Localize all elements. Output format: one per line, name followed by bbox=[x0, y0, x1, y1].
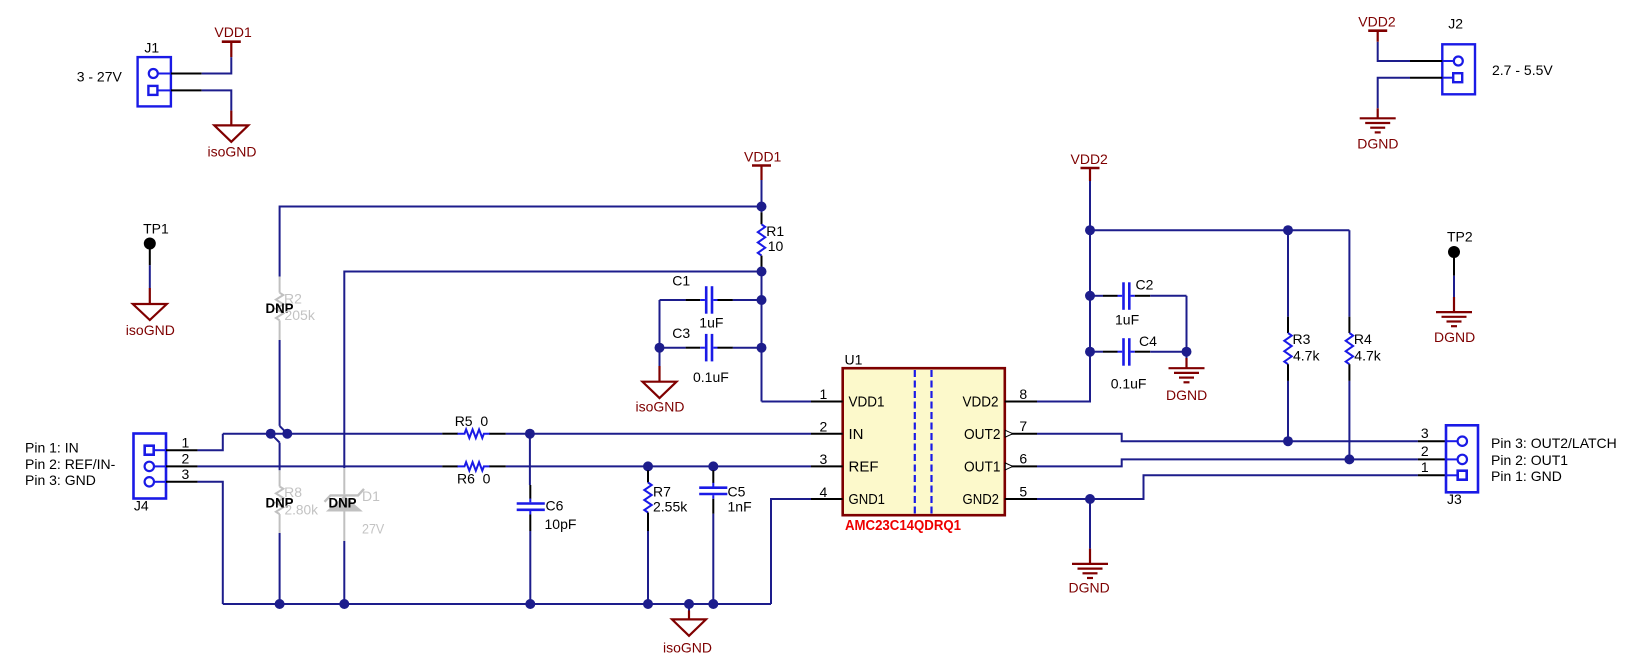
svg-text:Pin 1: IN: Pin 1: IN bbox=[25, 440, 79, 456]
wire GND bus to isoGND bbox=[688, 604, 690, 611]
svg-text:isoGND: isoGND bbox=[663, 639, 712, 655]
junction VDD2 node bbox=[1085, 225, 1095, 235]
svg-text:OUT2: OUT2 bbox=[964, 426, 1001, 443]
ground DGND (at C4) bbox=[1169, 358, 1205, 382]
power VDD2 (above C2) bbox=[1081, 168, 1100, 181]
junction REF/C5 bbox=[708, 461, 718, 471]
wire REF bus (y=466.4) bbox=[198, 465, 811, 467]
svg-text:U1: U1 bbox=[845, 352, 863, 368]
wire C5 top bbox=[712, 466, 714, 470]
op-amp U1 body bbox=[843, 368, 1005, 515]
svg-text:C3: C3 bbox=[672, 325, 690, 341]
capacitor C3 bbox=[660, 334, 762, 362]
wire VDD2 top rail (y=231) bbox=[1090, 229, 1349, 231]
wire GND2 to DGND bbox=[1089, 499, 1091, 549]
svg-text:R5 0: R5 0 bbox=[455, 413, 489, 429]
J3 pin2 lead bbox=[1418, 458, 1446, 460]
ground DGND (below U1) bbox=[1072, 549, 1108, 578]
wire R4 vertical top bbox=[1348, 230, 1350, 317]
J3 pin1 lead bbox=[1418, 474, 1446, 476]
svg-text:Pin 1: GND: Pin 1: GND bbox=[1491, 468, 1562, 484]
wire R8 branch vertical bbox=[279, 443, 281, 471]
svg-text:DGND: DGND bbox=[1357, 135, 1398, 151]
wire C1 left down to C3 bbox=[659, 300, 661, 348]
junction C3 left bbox=[655, 343, 665, 353]
wire J2 pin1 to VDD2 bbox=[1378, 42, 1410, 61]
svg-text:6: 6 bbox=[1019, 451, 1027, 467]
power VDD1 (at J1) bbox=[222, 42, 241, 57]
svg-text:VDD2: VDD2 bbox=[963, 394, 999, 411]
U1 pin 1 stub bbox=[811, 401, 843, 403]
capacitor C4 bbox=[1090, 338, 1187, 366]
resistor R7 bbox=[644, 470, 651, 531]
svg-text:REF: REF bbox=[849, 459, 879, 476]
J2 pin2 lead bbox=[1410, 77, 1442, 79]
capacitor C5 bbox=[699, 470, 727, 514]
svg-text:C4: C4 bbox=[1139, 333, 1157, 349]
U1 pin 5 stub bbox=[1005, 498, 1037, 500]
diode D1 (DNP zener) bbox=[325, 468, 365, 541]
junction C4 right bbox=[1182, 347, 1192, 357]
svg-text:GND2: GND2 bbox=[963, 491, 1000, 508]
svg-text:1nF: 1nF bbox=[728, 498, 752, 514]
test point TP1 bbox=[143, 221, 169, 250]
resistor R2 (DNP) bbox=[276, 277, 283, 340]
J3 pin name labels bbox=[1491, 435, 1617, 484]
junction C3 right bbox=[757, 343, 767, 353]
wire R3 vertical top bbox=[1287, 230, 1289, 317]
junction dots at IN bus crossover bbox=[266, 429, 293, 439]
junction REF/R7 bbox=[643, 461, 653, 471]
svg-text:0.1uF: 0.1uF bbox=[693, 369, 729, 385]
svg-text:C2: C2 bbox=[1136, 277, 1154, 293]
U1 pin 7 stub bbox=[1005, 433, 1037, 435]
svg-text:R1: R1 bbox=[766, 223, 784, 239]
svg-text:3: 3 bbox=[1421, 425, 1429, 441]
wire VDD2 stub down bbox=[1089, 181, 1091, 230]
svg-text:DGND: DGND bbox=[1434, 329, 1475, 345]
power VDD2 (at J2) bbox=[1368, 31, 1387, 42]
svg-text:R8: R8 bbox=[284, 484, 302, 500]
svg-text:2.80k: 2.80k bbox=[285, 502, 319, 518]
wire C5 bottom to GND bus bbox=[712, 514, 714, 604]
U1 pin 4 stub bbox=[811, 498, 843, 500]
J3 pin3 lead bbox=[1418, 440, 1446, 442]
junction C4 left bbox=[1085, 347, 1095, 357]
svg-text:10pF: 10pF bbox=[545, 516, 577, 532]
ground DGND (at J2) bbox=[1360, 108, 1396, 132]
U1 pin 2 stub bbox=[811, 433, 843, 435]
junction IN/C6 bbox=[525, 429, 535, 439]
svg-text:1: 1 bbox=[182, 434, 190, 450]
wire R7 top bbox=[647, 466, 649, 470]
wire J1 pin1 to VDD1 bbox=[202, 57, 232, 73]
J4 pin name labels bbox=[25, 440, 116, 488]
svg-text:3: 3 bbox=[820, 451, 828, 467]
wire to U1 pin1 bbox=[762, 401, 812, 403]
svg-text:J2: J2 bbox=[1448, 15, 1463, 31]
svg-text:Pin 2: OUT1: Pin 2: OUT1 bbox=[1491, 452, 1568, 468]
wire J4 pin3 down to GND bus bbox=[198, 482, 223, 604]
svg-text:DGND: DGND bbox=[1166, 387, 1207, 403]
wire J4 pin1 to IN bus bbox=[198, 434, 223, 451]
test point TP2 bbox=[1447, 229, 1473, 259]
svg-text:C6: C6 bbox=[546, 498, 564, 514]
wire OUT2 net bbox=[1037, 434, 1418, 442]
U1 pin 6 output marker bbox=[1005, 463, 1013, 470]
svg-text:1uF: 1uF bbox=[1115, 312, 1139, 328]
J4 pin3 lead bbox=[166, 481, 198, 483]
J4 pin1 lead bbox=[166, 449, 198, 451]
J1 pin2 lead bbox=[171, 89, 202, 91]
svg-text:GND1: GND1 bbox=[849, 491, 886, 508]
wire R7 bottom to GND bus bbox=[647, 531, 649, 604]
svg-text:4.7k: 4.7k bbox=[1293, 348, 1320, 364]
junction C5/GND bus bbox=[708, 599, 718, 609]
svg-text:R7: R7 bbox=[653, 484, 671, 500]
junction R3/OUT2 bbox=[1283, 436, 1293, 446]
svg-text:Pin 3: GND: Pin 3: GND bbox=[25, 472, 96, 488]
svg-text:Pin 3: OUT2/LATCH: Pin 3: OUT2/LATCH bbox=[1491, 435, 1617, 451]
svg-text:7: 7 bbox=[1019, 418, 1027, 434]
svg-text:5: 5 bbox=[1019, 483, 1027, 499]
svg-text:8: 8 bbox=[1019, 386, 1027, 402]
TP2 lead bbox=[1453, 258, 1455, 276]
wire VDD1 branch vertical (x=279.6 upper) bbox=[280, 426, 288, 434]
svg-text:TP2: TP2 bbox=[1447, 229, 1473, 245]
wire VDD2 vertical to U1 pin8 bbox=[1037, 230, 1090, 401]
wire R1 bottom node bbox=[761, 267, 763, 401]
svg-text:J3: J3 bbox=[1447, 491, 1462, 507]
svg-text:R6 0: R6 0 bbox=[457, 471, 491, 487]
svg-text:VDD1: VDD1 bbox=[214, 24, 252, 40]
ground isoGND (at TP1) bbox=[133, 288, 167, 320]
svg-text:2.55k: 2.55k bbox=[653, 498, 688, 514]
svg-text:R3: R3 bbox=[1293, 331, 1311, 347]
svg-text:VDD1: VDD1 bbox=[744, 149, 782, 165]
resistor R3 bbox=[1284, 317, 1291, 381]
ground isoGND (at GND bus) bbox=[672, 611, 706, 636]
wire R4 bottom to OUT1 net bbox=[1348, 381, 1350, 460]
svg-text:C1: C1 bbox=[672, 273, 690, 289]
svg-text:3: 3 bbox=[182, 466, 190, 482]
svg-text:OUT1: OUT1 bbox=[964, 459, 1001, 476]
svg-text:C5: C5 bbox=[728, 484, 746, 500]
wire C3 left to isoGND bbox=[659, 348, 661, 366]
U1 pin 7 output marker bbox=[1005, 430, 1013, 437]
U1 pin 8 stub bbox=[1005, 401, 1037, 403]
svg-text:DNP: DNP bbox=[329, 495, 357, 511]
wire R2 bottom to IN junction bbox=[279, 340, 281, 426]
wire GND bus (y=602) bbox=[223, 603, 771, 605]
resistor R1 bbox=[758, 212, 765, 267]
svg-text:isoGND: isoGND bbox=[636, 398, 685, 414]
wire OUT1 net bbox=[1037, 459, 1418, 466]
J1 pin1 lead bbox=[171, 73, 202, 75]
wire IN bus (y=434) bbox=[223, 433, 811, 435]
junction R8/GND bus bbox=[275, 599, 285, 609]
junction GND2/DGND bbox=[1085, 494, 1095, 504]
resistor R8 (DNP) bbox=[276, 470, 283, 533]
U1 pin 6 stub bbox=[1005, 465, 1037, 467]
junction R3 top bbox=[1283, 225, 1293, 235]
wire GND bus up to U1 pin4 bbox=[771, 499, 811, 604]
wire C6 bottom to GND bus bbox=[529, 531, 531, 604]
wire C6 top bbox=[529, 434, 531, 485]
svg-text:4: 4 bbox=[820, 484, 828, 500]
svg-text:0.1uF: 0.1uF bbox=[1111, 376, 1147, 392]
junction R4/OUT1 bbox=[1344, 454, 1354, 464]
connector J1 bbox=[138, 57, 171, 106]
svg-text:205k: 205k bbox=[284, 307, 316, 323]
svg-text:10: 10 bbox=[768, 238, 784, 254]
svg-text:D1: D1 bbox=[362, 488, 380, 504]
svg-text:2.7 - 5.5V: 2.7 - 5.5V bbox=[1492, 62, 1553, 78]
wire TP2 to DGND bbox=[1453, 276, 1455, 297]
svg-text:R4: R4 bbox=[1354, 331, 1372, 347]
wire J1 pin2 to isoGND bbox=[202, 90, 232, 110]
junction isoGND/GND bus bbox=[684, 599, 694, 609]
ground DGND (at TP2) bbox=[1436, 297, 1472, 326]
junction R1/D1 line bbox=[757, 267, 767, 277]
capacitor C6 bbox=[517, 485, 545, 531]
svg-text:IN: IN bbox=[849, 426, 864, 443]
svg-text:Pin 2: REF/IN-: Pin 2: REF/IN- bbox=[25, 456, 116, 472]
wire C4 right to DGND bbox=[1186, 352, 1188, 358]
svg-text:isoGND: isoGND bbox=[208, 144, 257, 160]
svg-text:2: 2 bbox=[1421, 443, 1429, 459]
U1 pin 3 stub bbox=[811, 465, 843, 467]
svg-text:DGND: DGND bbox=[1069, 579, 1110, 595]
ground isoGND (at C3) bbox=[643, 366, 677, 398]
svg-text:1: 1 bbox=[820, 386, 828, 402]
wire J2 pin2 to DGND bbox=[1378, 78, 1410, 109]
junction C6/GND bus bbox=[525, 599, 535, 609]
svg-text:R2: R2 bbox=[284, 291, 302, 307]
wire VDD1 stub to junction bbox=[761, 180, 763, 212]
connector J4 bbox=[134, 434, 167, 499]
TP1 lead bbox=[149, 249, 151, 265]
svg-text:VDD2: VDD2 bbox=[1071, 151, 1109, 167]
resistor R5 leads bbox=[442, 433, 506, 435]
svg-text:AMC23C14QDRQ1: AMC23C14QDRQ1 bbox=[845, 518, 961, 534]
connector J2 bbox=[1442, 44, 1475, 94]
junction R7/GND bus bbox=[643, 599, 653, 609]
svg-text:J1: J1 bbox=[144, 39, 159, 55]
wire C2 right down to C4 bbox=[1186, 296, 1188, 352]
svg-text:1uF: 1uF bbox=[699, 315, 723, 331]
svg-text:3 - 27V: 3 - 27V bbox=[77, 69, 123, 85]
svg-text:isoGND: isoGND bbox=[126, 322, 175, 338]
J2 pin1 lead bbox=[1410, 60, 1442, 62]
resistor R5 body bbox=[458, 429, 490, 438]
resistor R6 body bbox=[458, 462, 490, 471]
junction D1/GND bus bbox=[339, 599, 349, 609]
wire TP1 to isoGND bbox=[149, 265, 151, 288]
ground isoGND (at J1) bbox=[214, 111, 248, 142]
svg-text:27V: 27V bbox=[362, 521, 385, 537]
svg-text:VDD2: VDD2 bbox=[1358, 14, 1396, 30]
junction C2 left bbox=[1085, 291, 1095, 301]
svg-text:VDD1: VDD1 bbox=[849, 394, 885, 411]
svg-text:TP1: TP1 bbox=[143, 221, 169, 237]
capacitor C1 bbox=[660, 286, 762, 314]
wire R8 bottom to GND bus bbox=[279, 533, 281, 604]
svg-text:1: 1 bbox=[1421, 459, 1429, 475]
wire GND2 net bbox=[1037, 475, 1418, 499]
J4 pin2 lead bbox=[166, 465, 198, 467]
wire D1 bottom to GND bus bbox=[343, 541, 345, 604]
svg-text:J4: J4 bbox=[134, 498, 149, 514]
wire D1 branch top (y=271.5 line) bbox=[344, 272, 761, 469]
svg-text:4.7k: 4.7k bbox=[1354, 348, 1381, 364]
wire R3 bottom to OUT2 net bbox=[1287, 381, 1289, 441]
capacitor C2 bbox=[1090, 282, 1187, 310]
wire jog below IN bus bbox=[271, 434, 280, 443]
junction C1 right bbox=[757, 295, 767, 305]
resistor R4 bbox=[1346, 317, 1353, 381]
junction VDD1 node bbox=[757, 202, 767, 212]
power VDD1 (above R1) bbox=[752, 166, 771, 181]
svg-text:2: 2 bbox=[820, 419, 828, 435]
wire top line VDD1 node (y=206.5) bbox=[280, 207, 762, 277]
svg-text:2: 2 bbox=[182, 450, 190, 466]
resistor R6 leads bbox=[442, 465, 506, 467]
connector J3 bbox=[1446, 425, 1478, 492]
